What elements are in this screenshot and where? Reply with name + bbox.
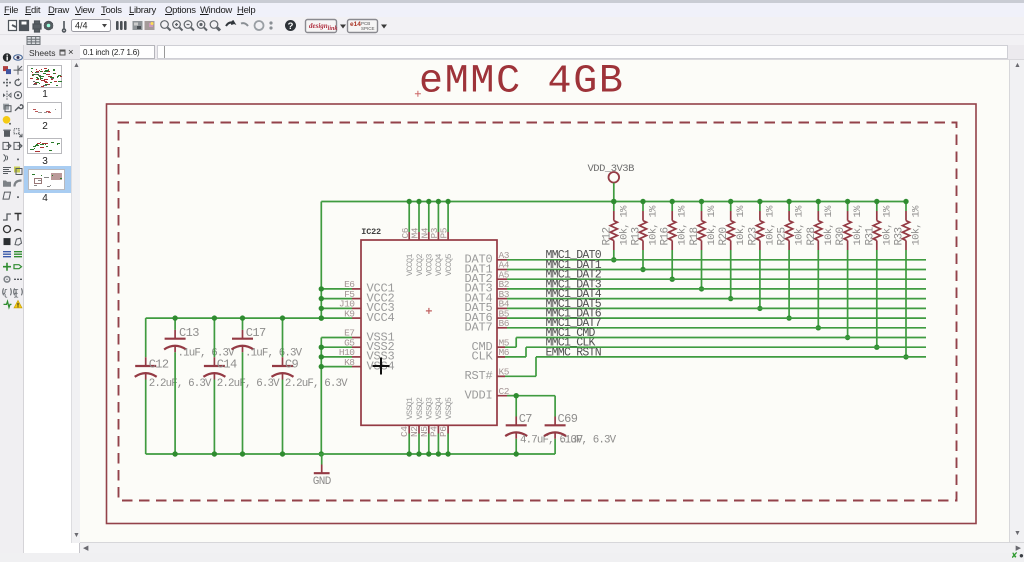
junction C17 top: [240, 315, 245, 320]
wire column C9: [282, 318, 284, 357]
IC22 origin cross: [426, 308, 432, 314]
net MMC1_CMD wire: [516, 337, 926, 339]
junction R25 top: [786, 199, 791, 204]
wire VDD_3V3B to bus: [613, 183, 615, 202]
svg-text:2.2uF, 6.3V: 2.2uF, 6.3V: [285, 378, 348, 390]
junction R30 top: [845, 199, 850, 204]
svg-text:VCCQ3: VCCQ3: [425, 254, 435, 276]
svg-text:VSSQ1: VSSQ1: [405, 397, 415, 419]
wire VCCQ4: [437, 202, 439, 233]
junction VCCQ2: [416, 199, 421, 204]
ground GND: [313, 465, 332, 489]
svg-text:2.2uF, 6.3V: 2.2uF, 6.3V: [149, 378, 212, 390]
pin stub VCCQ5 P5: [447, 232, 449, 240]
svg-text:VCCQ5: VCCQ5: [444, 254, 454, 276]
wire R12 to net: [613, 250, 615, 260]
net MMC1_CLK wire: [526, 346, 926, 348]
wire top VCC bus: [321, 201, 906, 203]
svg-text:VDD_3V3B: VDD_3V3B: [588, 163, 635, 175]
svg-text:10k, 1%: 10k, 1%: [735, 205, 747, 246]
resistor R18 10k 1%: [689, 202, 718, 251]
svg-text:VDDI: VDDI: [464, 389, 492, 403]
resistor R12 10k 1%: [601, 202, 630, 251]
capacitor C12: [135, 357, 212, 390]
junction R28 bottom: [816, 325, 821, 330]
svg-text:10k, 1%: 10k, 1%: [911, 205, 923, 246]
wire R13 to net: [642, 250, 644, 270]
wire R31 to net: [876, 250, 878, 347]
junction VSSQ1: [407, 451, 412, 456]
junction VSSQ3: [426, 451, 431, 456]
svg-text:VCCQ4: VCCQ4: [434, 254, 444, 276]
wire VDDI net: [507, 395, 555, 397]
svg-text:K9: K9: [344, 308, 355, 319]
svg-text:10k, 1%: 10k, 1%: [794, 205, 806, 246]
wire R16 to net: [671, 250, 673, 279]
svg-text:RST#: RST#: [464, 369, 492, 383]
junction R33 top: [903, 199, 908, 204]
svg-text:10k, 1%: 10k, 1%: [764, 205, 776, 246]
junction R23 top: [757, 199, 762, 204]
svg-text:10k, 1%: 10k, 1%: [852, 205, 864, 246]
svg-text:VSSQ3: VSSQ3: [425, 397, 435, 419]
wire CMD pin step: [497, 346, 516, 348]
junction C17 bottom: [240, 451, 245, 456]
pin stub DAT7: [497, 327, 507, 329]
wire VSS1 net: [321, 337, 352, 339]
junction VSS3: [319, 354, 324, 359]
svg-text:R20: R20: [718, 227, 730, 245]
junction cap rail right: [319, 315, 324, 320]
pin stub VSSQ3 N5: [428, 425, 430, 433]
wire bottom GND rail: [146, 453, 555, 455]
junction C13 top: [172, 315, 177, 320]
wire VSSQ5: [447, 434, 449, 455]
pin stub VCCQ1 C6: [408, 232, 410, 240]
svg-text:C12: C12: [149, 358, 169, 372]
wire C7 branch: [515, 396, 517, 417]
wire column C13: [174, 318, 176, 330]
net MMC1_DAT0: [507, 259, 926, 261]
junction R28 top: [816, 199, 821, 204]
svg-text:R25: R25: [777, 227, 789, 245]
pin stub VSS4 K8: [352, 366, 361, 368]
pin stub VCC4 K9: [352, 317, 361, 319]
junction VCC2: [319, 296, 324, 301]
wire R30 to net: [847, 250, 849, 338]
wire column C14: [213, 318, 215, 357]
svg-text:VSSQ2: VSSQ2: [415, 397, 425, 419]
net MMC1_DAT4: [507, 298, 926, 300]
pin stub VDDI C2: [497, 395, 516, 397]
svg-text:P6: P6: [438, 426, 449, 437]
pin stub VCCQ2 M4: [418, 232, 420, 240]
junction C14 bottom: [212, 451, 217, 456]
resistor R23 10k 1%: [747, 202, 776, 251]
junction R12 top: [611, 199, 616, 204]
svg-text:VSSQ5: VSSQ5: [444, 397, 454, 419]
wire R25 to net: [788, 250, 790, 318]
net MMC1_DAT2: [507, 278, 926, 280]
pin stub DAT6: [497, 317, 507, 319]
svg-text:C13: C13: [179, 326, 199, 340]
svg-text:CLK: CLK: [471, 350, 493, 364]
wire VCC4 net: [321, 317, 352, 319]
wire C69 branch: [554, 396, 556, 417]
junction VSS2: [319, 345, 324, 350]
wire R28 to net: [817, 250, 819, 328]
svg-text:K5: K5: [499, 367, 510, 378]
capacitor C13: [164, 326, 235, 360]
net MMC1_DAT1: [507, 269, 926, 271]
junction R12 bottom: [611, 257, 616, 262]
pin stub VSS1 E7: [352, 337, 361, 339]
svg-text:K8: K8: [344, 357, 355, 368]
svg-text:10k, 1%: 10k, 1%: [618, 205, 630, 246]
svg-text:C9: C9: [285, 358, 299, 372]
svg-text:M6: M6: [499, 347, 510, 358]
junction R31 top: [874, 199, 879, 204]
pin stub VSSQ1 C4: [408, 425, 410, 433]
op-amp IC22 body: [361, 240, 497, 425]
svg-text:VCC4: VCC4: [367, 311, 395, 325]
junction R33 bottom: [903, 354, 908, 359]
capacitor C7: [505, 412, 583, 447]
wire VCCQ2: [418, 202, 420, 233]
net MMC1_DAT7: [507, 327, 926, 329]
junction R13 bottom: [640, 267, 645, 272]
pin stub VSSQ5 P6: [447, 425, 449, 433]
svg-text:C7: C7: [519, 412, 533, 426]
junction R20 top: [728, 199, 733, 204]
wire VSS vertical: [320, 338, 322, 455]
wire VSSQ2: [418, 434, 420, 455]
junction VSSQ5: [445, 451, 450, 456]
junction R25 bottom: [786, 315, 791, 320]
net EMMC_RSTN wire: [536, 356, 926, 358]
junction VCCQ1: [407, 199, 412, 204]
svg-text:VCCQ1: VCCQ1: [405, 254, 415, 276]
svg-text:R33: R33: [894, 227, 906, 245]
junction VSS rail: [319, 451, 324, 456]
pin stub DAT3: [497, 288, 507, 290]
pin stub CMD M5: [497, 346, 505, 348]
junction R20 bottom: [728, 296, 733, 301]
resistor R20 10k 1%: [718, 202, 747, 251]
resistor R31 10k 1%: [864, 202, 893, 251]
svg-text:R28: R28: [806, 227, 818, 245]
frame inner dashed border: [119, 123, 957, 501]
junction VCC1: [319, 286, 324, 291]
svg-text:VSSQ4: VSSQ4: [434, 397, 444, 419]
svg-text:10k, 1%: 10k, 1%: [677, 205, 689, 246]
capacitor C9: [272, 357, 349, 390]
svg-text:R18: R18: [689, 227, 701, 245]
junction VCCQ4: [436, 199, 441, 204]
svg-text:VCCQ2: VCCQ2: [415, 254, 425, 276]
pin stub VSS2 G5: [352, 346, 361, 348]
pin stub VSSQ2 N2: [418, 425, 420, 433]
svg-text:R12: R12: [601, 227, 613, 245]
wire RST# pin step: [497, 375, 536, 377]
junction C7 rail: [514, 451, 519, 456]
pin stub VSSQ4 P4: [437, 425, 439, 433]
capacitor C69: [544, 412, 617, 447]
svg-text:10k, 1%: 10k, 1%: [823, 205, 835, 246]
svg-text:R31: R31: [864, 226, 876, 245]
net MMC1_DAT3: [507, 288, 926, 290]
svg-text:10k, 1%: 10k, 1%: [881, 205, 893, 246]
mouse crosshair cursor: [373, 358, 390, 375]
svg-text:C2: C2: [499, 386, 510, 397]
junction VCC3: [319, 306, 324, 311]
junction C9 bottom: [280, 451, 285, 456]
svg-text:C17: C17: [246, 326, 266, 340]
junction C13 bottom: [172, 451, 177, 456]
resistor R28 10k 1%: [806, 202, 835, 251]
wire VCC vertical drop: [320, 202, 322, 319]
junction R23 bottom: [757, 306, 762, 311]
wire VSS4 net: [321, 366, 352, 368]
junction R18 top: [699, 199, 704, 204]
junction VSSQ2: [416, 451, 421, 456]
svg-text:R13: R13: [631, 227, 643, 245]
pin stub DAT1: [497, 269, 507, 271]
junction VDD bus: [611, 199, 616, 204]
resistor R25 10k 1%: [777, 202, 806, 251]
pin stub CLK M6: [497, 356, 505, 358]
pin stub VCC1 E6: [352, 288, 361, 290]
svg-text:.1uF, 6.3V: .1uF, 6.3V: [559, 435, 617, 447]
pin stub VCCQ4 P3: [437, 232, 439, 240]
junction VSSQ4: [436, 451, 441, 456]
net MMC1_DAT5: [507, 307, 926, 309]
wire R20 to net: [730, 250, 732, 299]
junction R16 top: [670, 199, 675, 204]
pin stub DAT2: [497, 278, 507, 280]
junction R13 top: [640, 199, 645, 204]
resistor R16 10k 1%: [660, 202, 689, 251]
pin stub DAT0: [497, 259, 507, 261]
wire R18 to net: [701, 250, 703, 289]
junction VCC4: [319, 315, 324, 320]
wire VCCQ5: [447, 202, 449, 233]
wire R33 to net: [905, 250, 907, 357]
resistor R33 10k 1%: [894, 202, 923, 251]
junction R30 bottom: [845, 335, 850, 340]
wire VSS3 net: [321, 356, 352, 358]
wire VSSQ1: [408, 434, 410, 455]
junction C14 top: [212, 315, 217, 320]
svg-text:R16: R16: [660, 227, 672, 245]
wire column C12: [145, 318, 147, 357]
pin stub VSS3 H10: [352, 356, 361, 358]
pin stub VCC2 F5: [352, 298, 361, 300]
svg-text:R30: R30: [835, 227, 847, 245]
svg-text:R23: R23: [747, 227, 759, 245]
pin stub DAT5: [497, 307, 507, 309]
wire cap top rail: [146, 317, 322, 319]
junction VDDI: [514, 393, 519, 398]
junction R18 bottom: [699, 286, 704, 291]
junction R16 bottom: [670, 277, 675, 282]
wire VSS2 net: [321, 346, 352, 348]
title origin cross: [415, 91, 421, 97]
net MMC1_DAT6: [507, 317, 926, 319]
svg-text:C14: C14: [217, 358, 237, 372]
wire VCC3 net: [321, 307, 352, 309]
junction VCCQ5: [445, 199, 450, 204]
wire VSSQ3: [428, 434, 430, 455]
svg-text:DAT7: DAT7: [464, 321, 492, 335]
wire VCC2 net: [321, 298, 352, 300]
svg-text:B6: B6: [499, 318, 510, 329]
junction C9 top: [280, 315, 285, 320]
wire R23 to net: [759, 250, 761, 308]
wire CLK pin step: [497, 356, 526, 358]
wire VCC1 net: [321, 288, 352, 290]
svg-text:GND: GND: [313, 476, 332, 488]
wire VCCQ1: [408, 202, 410, 233]
resistor R13 10k 1%: [631, 202, 660, 251]
svg-text:2.2uF, 6.3V: 2.2uF, 6.3V: [217, 378, 280, 390]
wire VCCQ3: [428, 202, 430, 233]
pin stub DAT4: [497, 298, 507, 300]
junction VCCQ3: [426, 199, 431, 204]
wire column C17: [242, 318, 244, 330]
pin stub VCCQ3 N4: [428, 232, 430, 240]
capacitor C14: [203, 357, 280, 390]
svg-text:IC22: IC22: [361, 227, 381, 237]
svg-text:10k, 1%: 10k, 1%: [706, 205, 718, 246]
pin stub VCC3 J10: [352, 307, 361, 309]
svg-text:C69: C69: [558, 412, 578, 426]
junction VSS4: [319, 364, 324, 369]
svg-text:P5: P5: [439, 227, 450, 238]
pin stub RST# K5: [497, 375, 505, 377]
capacitor C17: [232, 326, 303, 360]
svg-text:10k, 1%: 10k, 1%: [648, 205, 660, 246]
frame outer border: [107, 104, 977, 524]
resistor R30 10k 1%: [835, 202, 864, 251]
supply VDD_3V3B: [588, 163, 635, 183]
junction R31 bottom: [874, 345, 879, 350]
wire GND stub: [321, 454, 323, 465]
wire VSSQ4: [437, 434, 439, 455]
svg-text:eMMC 4GB: eMMC 4GB: [419, 60, 625, 105]
